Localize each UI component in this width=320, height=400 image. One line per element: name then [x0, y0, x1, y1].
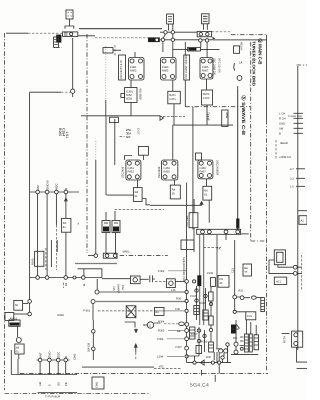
- svg-text:B: B: [279, 133, 281, 136]
- connector rows: [279, 113, 303, 136]
- node: [36, 190, 40, 194]
- board boundary bottom dash-dot: [20, 373, 268, 375]
- svg-text:C417: C417: [137, 128, 140, 135]
- wire: [17, 326, 19, 337]
- dense blob left: [231, 325, 240, 334]
- transistor Q607: [198, 160, 213, 179]
- capacitor C641: [150, 275, 155, 282]
- component DL601: [148, 37, 160, 42]
- svg-text:2SC1815Y 4.7K: 2SC1815Y 4.7K: [120, 60, 123, 79]
- dashed: [45, 248, 47, 270]
- node: [185, 337, 189, 341]
- svg-text:Ⓠ MAIN C-B: Ⓠ MAIN C-B: [258, 39, 263, 66]
- dashed rail: [115, 208, 164, 210]
- board boundary bottom: [5, 393, 151, 395]
- dashes: [62, 283, 64, 288]
- node: [155, 38, 158, 41]
- bracket: [65, 26, 74, 29]
- svg-text:R265: R265: [58, 128, 62, 136]
- svg-text:R455: R455: [164, 171, 171, 174]
- tick rows right: [290, 168, 305, 189]
- svg-text:B: B: [64, 188, 68, 190]
- svg-text:C473: C473: [203, 97, 210, 100]
- svg-text:R305: R305: [158, 330, 165, 333]
- hatched resistor: [249, 334, 252, 352]
- svg-text:41: 41: [220, 282, 223, 285]
- wire with arrow: [65, 194, 68, 219]
- svg-text:R465: R465: [162, 70, 169, 73]
- svg-text:R2: R2: [63, 222, 67, 225]
- wire: [278, 265, 293, 268]
- svg-text:2SC2458: 2SC2458: [122, 166, 125, 178]
- wire: [184, 80, 186, 107]
- svg-text:R21: R21: [238, 290, 243, 293]
- wire gray pair: [203, 234, 205, 325]
- wire: [204, 24, 208, 30]
- transistor Q606: [158, 160, 178, 180]
- cluster ticks: [233, 337, 244, 346]
- svg-text:2SC 2458 GR: 2SC 2458 GR: [213, 58, 216, 75]
- wire: [169, 24, 173, 31]
- wire: [140, 278, 149, 280]
- svg-text:1A: 1A: [239, 62, 242, 65]
- wire: [106, 211, 116, 254]
- IC U601: [125, 88, 142, 103]
- svg-text:B: B: [64, 356, 68, 358]
- hatched resistor: [254, 335, 259, 350]
- svg-text:4.7: 4.7: [290, 168, 294, 171]
- node: [64, 358, 68, 362]
- component R642: [31, 251, 43, 266]
- svg-text:4558: 4558: [126, 98, 132, 101]
- bead hatched: [190, 327, 196, 339]
- connector box B: [167, 14, 174, 24]
- wire: [130, 80, 132, 116]
- node: [240, 296, 244, 300]
- capacitor C651: [102, 221, 110, 233]
- node: [28, 300, 32, 304]
- svg-text:TUNER UNIT: TUNER UNIT: [288, 115, 303, 118]
- label strip IC602: [184, 55, 190, 80]
- svg-text:C64: C64: [121, 285, 124, 290]
- node: [185, 355, 188, 358]
- svg-text:2SC2458GR: 2SC2458GR: [216, 160, 219, 175]
- component dark bar: [236, 219, 239, 229]
- component M601: [188, 47, 201, 51]
- node: [36, 276, 40, 280]
- FET Q604: [120, 128, 140, 139]
- rail wire: [150, 204, 202, 206]
- wire: [96, 279, 98, 290]
- node: [45, 190, 49, 194]
- wire: [95, 141, 97, 160]
- node: [92, 330, 96, 334]
- wire stubs: [51, 240, 57, 267]
- connector CN603 strip: [197, 229, 241, 234]
- wires below pins: [40, 362, 66, 375]
- wire: [193, 199, 195, 213]
- svg-text:C264: C264: [62, 128, 66, 136]
- wire: [92, 304, 94, 321]
- VOL amp box: [186, 213, 198, 228]
- gray rail: [95, 301, 187, 303]
- svg-text:4859: 4859: [225, 112, 228, 118]
- node: [193, 280, 196, 283]
- svg-text:3.3: 3.3: [290, 178, 294, 181]
- rail y292: [97, 291, 185, 293]
- component R641: [61, 218, 71, 232]
- svg-text:AC IN: AC IN: [283, 336, 286, 343]
- svg-text:R463: R463: [130, 70, 137, 73]
- component C630: [181, 240, 194, 250]
- component box: [218, 275, 229, 287]
- middle column extra components: [187, 286, 214, 356]
- node: [161, 38, 164, 41]
- svg-text:AGC: AGC: [55, 183, 59, 190]
- svg-text:SUB WOOFER VOL: SUB WOOFER VOL: [182, 257, 185, 282]
- wires up: [236, 320, 256, 342]
- box A: [299, 216, 307, 225]
- rail wire: [173, 124, 233, 126]
- wire: [14, 313, 28, 315]
- node: [38, 358, 42, 362]
- dash-dot to right: [120, 255, 168, 257]
- board boundary top-left: [6, 32, 28, 34]
- wire: [193, 228, 195, 252]
- capacitor C652: [112, 221, 120, 233]
- svg-text:BA: BA: [244, 267, 248, 270]
- node: [92, 347, 96, 351]
- dashed label rail: [204, 246, 222, 248]
- node: [171, 31, 174, 34]
- svg-text:GND: GND: [48, 352, 52, 358]
- antenna arrow: [134, 344, 137, 353]
- wire w bead: [164, 323, 178, 325]
- wire ticks: [282, 333, 290, 335]
- svg-text:GND B: GND B: [45, 180, 49, 190]
- svg-text:C317: C317: [191, 333, 198, 336]
- svg-text:41: 41: [63, 226, 66, 229]
- node: [234, 350, 238, 354]
- svg-text:DTC 114 EK: DTC 114 EK: [218, 58, 221, 73]
- wire: [235, 299, 246, 312]
- left connector rail: [30, 191, 79, 193]
- bracket: [233, 63, 236, 70]
- svg-text:47C: 47C: [159, 366, 164, 369]
- wire: [29, 192, 31, 314]
- node: [218, 361, 221, 364]
- wire stubs: [135, 42, 207, 58]
- extra cluster wires: [193, 343, 229, 364]
- node: [64, 276, 68, 280]
- svg-text:R473: R473: [203, 93, 210, 96]
- transistor Q602: [161, 58, 177, 81]
- connector CN601: [63, 32, 78, 37]
- svg-text:X8: X8: [16, 347, 20, 350]
- rail right continue: [102, 278, 130, 280]
- wire stub: [225, 234, 227, 240]
- wire: [241, 233, 249, 235]
- wire stubs: [297, 267, 302, 273]
- shield box: [126, 306, 136, 318]
- rail: [231, 354, 258, 356]
- svg-text:415: 415: [112, 286, 115, 291]
- svg-text:E: E: [49, 384, 52, 386]
- wire left loop: [29, 92, 31, 192]
- svg-text:TA: TA: [217, 248, 220, 251]
- svg-text:C304: C304: [157, 338, 164, 341]
- pot box: [167, 279, 176, 288]
- S.WAVE area vertical: [234, 240, 236, 297]
- wire gray pair: [199, 234, 201, 325]
- board boundary S.WAVE vertical: [250, 42, 252, 241]
- gray wire: [75, 263, 117, 265]
- node: [95, 290, 99, 294]
- wire corner: [125, 322, 135, 328]
- svg-text:TT: TT: [244, 271, 248, 274]
- svg-text:C302: C302: [158, 270, 165, 273]
- svg-text:59: 59: [172, 193, 175, 196]
- svg-text:AC1: AC1: [276, 280, 282, 283]
- wire: [65, 232, 67, 277]
- board boundary MAIN C-B vertical: [266, 35, 268, 120]
- svg-text:C842: C842: [74, 353, 77, 360]
- svg-text:LS1: LS1: [65, 132, 69, 138]
- svg-text:C841: C841: [96, 381, 99, 388]
- node: [55, 190, 59, 194]
- node: [171, 38, 174, 41]
- rail wire: [81, 115, 160, 117]
- node: [56, 358, 60, 362]
- arrow mark: [212, 37, 215, 40]
- board boundary left: [4, 33, 6, 390]
- component R633: [170, 185, 180, 199]
- connector box C: [202, 14, 210, 24]
- component box left edge: [5, 313, 14, 321]
- label block center: [112, 284, 124, 293]
- component box small: [196, 153, 202, 160]
- GB circle: [237, 76, 242, 81]
- node: [91, 300, 95, 304]
- wire: [17, 359, 19, 375]
- wire: [298, 210, 307, 212]
- bead oval: [251, 296, 256, 299]
- wire: [202, 364, 220, 382]
- wire gray: [216, 234, 218, 348]
- long rail: [82, 366, 154, 368]
- svg-text:B2: B2: [65, 282, 68, 286]
- svg-text:A1: A1: [301, 220, 305, 223]
- svg-text:PB: PB: [65, 382, 68, 386]
- node: [82, 276, 86, 280]
- component R601: [121, 94, 125, 98]
- board boundary corner: [251, 240, 267, 242]
- node: [164, 31, 167, 34]
- wire: [235, 346, 237, 350]
- faint rail: [98, 310, 154, 312]
- bottom rule: [38, 392, 77, 394]
- wire: [88, 255, 94, 257]
- wire rail: [107, 194, 134, 196]
- svg-text:5G4,C4: 5G4,C4: [190, 383, 209, 389]
- svg-text:E: E: [149, 324, 151, 327]
- node: [185, 309, 188, 312]
- tuner connector row: [37, 359, 70, 361]
- wire corner: [187, 362, 231, 364]
- svg-text:L CH: L CH: [279, 113, 285, 116]
- transistor Q603: [200, 58, 213, 80]
- node: [185, 346, 189, 350]
- svg-text:GND: GND: [279, 123, 285, 126]
- node: [45, 276, 49, 280]
- svg-text:R471: R471: [169, 94, 176, 97]
- svg-text:C315: C315: [190, 295, 197, 298]
- E circle: [143, 322, 154, 328]
- component D601: [103, 48, 113, 53]
- svg-text:R36: R36: [176, 298, 181, 301]
- dash-dot rail: [185, 106, 250, 108]
- component R634: [203, 186, 212, 200]
- node: [185, 329, 189, 333]
- label R617: [58, 128, 69, 138]
- component C611: [168, 91, 181, 104]
- wire: [206, 179, 208, 187]
- svg-text:C21: C21: [247, 315, 252, 318]
- wire: [163, 34, 185, 55]
- svg-text:R4: R4: [172, 189, 176, 192]
- svg-text:1.0: 1.0: [290, 186, 294, 189]
- wire step to rail: [142, 199, 150, 205]
- node: [71, 89, 75, 93]
- bottom bus: [11, 374, 77, 376]
- pair circles: [219, 349, 228, 361]
- component box R620: [222, 110, 228, 126]
- component S601: [54, 37, 59, 47]
- connector J1 top-left box: [66, 10, 73, 19]
- transformer T901: [274, 250, 285, 265]
- wire to tuner: [72, 38, 74, 89]
- tuner box T801: [9, 318, 20, 327]
- svg-text:L304: L304: [157, 355, 163, 358]
- right area frame corner: [297, 64, 307, 66]
- wire: [83, 269, 85, 276]
- connector CN604: [94, 253, 117, 258]
- svg-text:01: 01: [16, 351, 19, 354]
- right vertical rail: [297, 66, 299, 350]
- node: [233, 310, 236, 313]
- svg-text:ANT: ANT: [38, 352, 42, 358]
- transistor Q605: [122, 160, 141, 180]
- svg-text:R316: R316: [199, 302, 206, 305]
- component R631: [133, 188, 142, 202]
- svg-text:206 GB: 206 GB: [88, 343, 91, 352]
- board boundary top-right dash: [231, 34, 266, 36]
- wire: [37, 194, 39, 278]
- node: [73, 276, 76, 279]
- wire rail: [30, 91, 61, 93]
- wire: [237, 86, 239, 90]
- svg-text:R4: R4: [204, 190, 208, 193]
- svg-text:L36: L36: [171, 289, 176, 292]
- component cluster: [214, 349, 222, 360]
- connector CN901: [292, 331, 303, 347]
- node: [185, 280, 189, 284]
- transistor Q601: [129, 58, 145, 81]
- left rail 2: [30, 277, 102, 279]
- dashed rail: [154, 367, 182, 369]
- wire: [256, 297, 263, 299]
- svg-text:R457: R457: [200, 171, 207, 174]
- svg-text:OSC: OSC: [56, 352, 60, 358]
- wire: [137, 180, 139, 188]
- wire: [114, 119, 116, 165]
- node: [185, 299, 188, 302]
- svg-text:R304: R304: [158, 321, 165, 324]
- box bottom-left small: [155, 308, 165, 316]
- wire step: [125, 156, 132, 161]
- wire: [174, 180, 176, 185]
- lower bus wire: [95, 37, 148, 39]
- svg-text:56: 56: [15, 304, 18, 307]
- wire: [269, 260, 293, 273]
- svg-text:BEAD: BEAD: [281, 142, 288, 145]
- wire: [46, 194, 48, 278]
- svg-text:P-801: P-801: [83, 310, 91, 313]
- arrow down: [135, 329, 138, 333]
- node: [240, 347, 243, 350]
- svg-text:TUNER BLOCK BRD: TUNER BLOCK BRD: [252, 41, 257, 86]
- component L601 dark blob: [56, 35, 61, 43]
- oscillator Q801: [15, 338, 24, 359]
- node: [293, 265, 297, 269]
- svg-text:51: 51: [135, 195, 138, 198]
- node: [234, 342, 238, 346]
- svg-text:61: 61: [204, 194, 207, 197]
- svg-text:R467: R467: [202, 70, 209, 73]
- wire: [208, 200, 210, 223]
- svg-text:R246: R246: [58, 314, 65, 317]
- svg-text:D2: D2: [220, 278, 224, 281]
- connector CN602: [197, 31, 211, 36]
- svg-text:SW: SW: [279, 128, 284, 131]
- wire: [175, 280, 185, 282]
- bead dark: [197, 275, 201, 286]
- svg-text:R243: R243: [31, 258, 34, 265]
- box: [246, 312, 256, 320]
- wire: [173, 80, 174, 125]
- node: [28, 312, 32, 316]
- wire cross: [58, 47, 63, 49]
- box C841: [92, 377, 104, 389]
- wire: [186, 183, 188, 363]
- wire: [237, 296, 250, 299]
- svg-text:B3: B3: [156, 311, 160, 314]
- node: [233, 295, 237, 299]
- component cap: [210, 278, 215, 287]
- wire: [55, 194, 57, 225]
- svg-text:C471: C471: [169, 98, 176, 101]
- svg-text:R453: R453: [128, 171, 135, 174]
- svg-text:W601: W601: [123, 251, 131, 254]
- svg-text:TONE: TONE: [206, 112, 210, 121]
- component relay box: [130, 276, 140, 284]
- svg-text:2SC2458: 2SC2458: [158, 166, 161, 178]
- component R611: [110, 117, 119, 122]
- wire dotted: [105, 46, 107, 100]
- component R644: [14, 300, 28, 310]
- wire: [192, 107, 194, 230]
- diode D301: [200, 360, 204, 365]
